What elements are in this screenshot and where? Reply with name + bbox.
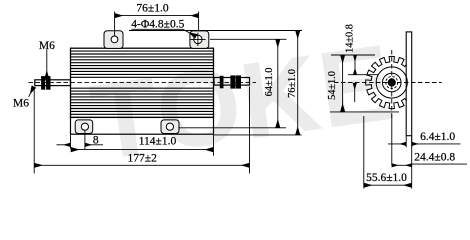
vertical centerline (side view) bbox=[391, 50, 393, 120]
extension line from top-left hole bbox=[114, 12, 116, 37]
svg-text:8: 8 bbox=[93, 135, 99, 147]
arrow to centerline bbox=[354, 83, 356, 102]
crosshair ticks on top-right hole bbox=[190, 33, 206, 47]
svg-text:14±0.8: 14±0.8 bbox=[345, 24, 356, 53]
svg-text:54±1.0: 54±1.0 bbox=[327, 71, 338, 100]
extension line flange bottom level bbox=[214, 134, 302, 136]
dimension line 54 vertical bbox=[342, 55, 344, 112]
mounting hole top-left bbox=[111, 36, 118, 43]
mounting hole bottom-right bbox=[166, 123, 173, 130]
extension line from top-right hole bbox=[198, 12, 200, 32]
extension line left terminal end bbox=[33, 88, 35, 173]
extension lines plate edges bbox=[405, 136, 407, 148]
svg-text:55.6±1.0: 55.6±1.0 bbox=[366, 172, 407, 184]
svg-text:6.4±1.0: 6.4±1.0 bbox=[420, 131, 455, 143]
underline of 4-dia4.8 label bbox=[132, 28, 183, 30]
right terminal washer mark bbox=[220, 76, 223, 88]
dimension line 76 vertical bbox=[297, 31, 299, 135]
dimension line 114 bbox=[71, 149, 213, 151]
right terminal thread nut marks bbox=[231, 76, 233, 88]
horizontal centerline (side view) bbox=[334, 82, 442, 84]
mounting hole top-right bbox=[194, 35, 202, 43]
extension line body left edge bbox=[70, 135, 72, 149]
right terminal rod bbox=[214, 78, 250, 86]
leader arrow to top-right hole bbox=[183, 29, 196, 36]
svg-text:76±1.0: 76±1.0 bbox=[287, 69, 298, 98]
svg-text:64±1.0: 64±1.0 bbox=[264, 68, 275, 97]
extension line gear bottom bbox=[330, 111, 399, 113]
thread circle dashed bbox=[386, 77, 398, 89]
extension line gear left bbox=[363, 116, 365, 189]
left terminal thread nut marks bbox=[42, 77, 45, 90]
dimension line 64 vertical bbox=[277, 39, 279, 127]
underline of 24.4 label bbox=[412, 163, 467, 165]
mounting hole bottom-left bbox=[81, 123, 88, 130]
dimension arrows 8 bbox=[57, 144, 71, 146]
extension line top hole level bbox=[210, 38, 287, 40]
svg-text:76±1.0: 76±1.0 bbox=[136, 2, 168, 14]
extension line from bottom-left hole bbox=[84, 131, 86, 150]
svg-text:177±2: 177±2 bbox=[128, 153, 158, 165]
mounting tab top-right bbox=[190, 31, 209, 49]
cooling fin lines bbox=[71, 51, 214, 114]
extrusion outer circle bbox=[376, 67, 407, 98]
center core filled bbox=[388, 79, 395, 86]
core bore circle bbox=[382, 73, 401, 92]
dimension arrows 6.4 bbox=[388, 143, 406, 145]
extension line bottom hole level bbox=[178, 127, 286, 129]
horizontal centerline (front view axis) bbox=[29, 82, 257, 84]
extension line from vertical centerline bbox=[391, 115, 393, 165]
leader arrow M6 top bbox=[46, 50, 48, 79]
svg-text:24.4±0.8: 24.4±0.8 bbox=[414, 151, 455, 163]
mounting plate (side view) bbox=[406, 32, 412, 136]
dimension line 14 bbox=[354, 55, 356, 75]
leader arrow M6 bottom bbox=[29, 87, 34, 97]
finned extrusion teeth ring (side view) bbox=[366, 56, 412, 108]
svg-text:114±1.0: 114±1.0 bbox=[139, 135, 177, 147]
bottom flange strip bbox=[71, 117, 214, 134]
extension line body right edge bbox=[213, 135, 215, 156]
watermark logo text bbox=[84, 21, 400, 183]
mounting tab bottom-left bbox=[75, 120, 93, 134]
dimension line 177 bbox=[34, 164, 249, 166]
extension line gear top bbox=[331, 54, 375, 56]
extension line plate right edge bbox=[411, 136, 413, 189]
svg-text:M6: M6 bbox=[39, 40, 55, 52]
left terminal rod bbox=[35, 80, 71, 86]
dimension line 24.4 bbox=[392, 164, 412, 166]
mounting tab bottom-right bbox=[161, 120, 179, 134]
extension line bore top bbox=[348, 74, 378, 76]
extension line tab top level bbox=[129, 30, 302, 32]
extension line right terminal end bbox=[249, 87, 251, 174]
resistor body outline (front view) bbox=[71, 48, 214, 117]
dimension line 76 top bbox=[115, 15, 199, 17]
svg-text:4-Φ4.8±0.5: 4-Φ4.8±0.5 bbox=[131, 18, 184, 30]
mounting tab top-left bbox=[104, 31, 123, 49]
svg-text:M6: M6 bbox=[13, 98, 29, 110]
dimension line 55.6 bbox=[364, 184, 412, 186]
